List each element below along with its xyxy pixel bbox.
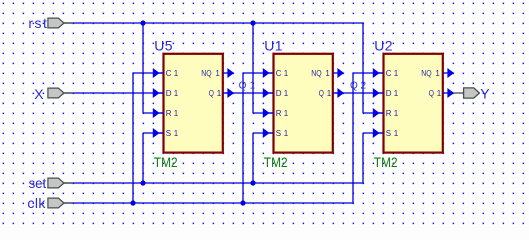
svg-text:C: C [386,69,392,78]
svg-text:U2: U2 [374,37,393,53]
wire Q1 net (U5.Q1 to U1.D1) [225,92,273,94]
svg-text:TM2: TM2 [264,154,288,170]
U1 pin D1 [269,92,274,94]
U1 pin R1 [269,112,274,114]
U1 pin NQ1 [333,72,339,74]
U2 pin R1 [379,112,384,114]
svg-text:1: 1 [174,89,179,98]
svg-text:Y: Y [480,85,490,101]
svg-text:1: 1 [327,89,332,98]
svg-text:2: 2 [361,81,367,92]
svg-text:Q: Q [350,81,358,92]
svg-text:R: R [386,109,392,118]
U2 pin C1 [379,72,384,74]
svg-text:Q: Q [429,89,434,98]
terminal Y output [453,92,464,94]
svg-text:1: 1 [174,129,179,138]
svg-text:set: set [29,175,47,191]
wire rst vertical to U2.R1 [362,22,364,113]
svg-text:R: R [276,109,282,118]
svg-text:1: 1 [394,109,399,118]
svg-text:Q: Q [319,89,324,98]
wire rst vertical to U5.R1 [142,22,144,113]
svg-text:NQ: NQ [201,69,211,78]
wire rst horizontal net [62,22,363,24]
svg-text:clk: clk [27,195,46,211]
terminal rst [64,22,73,24]
wire set vertical to U2.S1 [362,133,364,184]
wire set vertical to U5.S1 [142,133,144,184]
svg-text:U5: U5 [154,37,173,53]
flip-flop U2 body [384,54,443,153]
svg-text:1: 1 [284,129,289,138]
svg-text:C: C [166,69,172,78]
svg-text:D: D [386,89,392,98]
U5 pin C1 [159,72,164,74]
svg-text:1: 1 [284,109,289,118]
svg-text:TM2: TM2 [374,154,398,170]
svg-text:S: S [166,129,171,138]
svg-text:NQ: NQ [421,69,431,78]
svg-text:1: 1 [284,69,289,78]
svg-text:U1: U1 [264,37,283,53]
wire X input horizontal [62,92,163,94]
wire rst vertical to U1.R1 [252,22,254,113]
svg-text:S: S [276,129,281,138]
U2 pin D1 [379,92,384,94]
wire set horizontal net [62,182,363,184]
wire set vertical to U1.S1 [252,133,254,184]
terminal clk [64,202,73,204]
flip-flop U5 body [164,54,223,153]
flip-flop U1 body [274,54,333,153]
U5 pin S1 [159,132,164,134]
U5 pin Q1 [223,92,229,94]
U2 pin S1 [379,132,384,134]
terminal set [64,182,73,184]
svg-text:X: X [34,86,44,102]
svg-text:C: C [276,69,282,78]
U2 pin Q1 [443,92,449,94]
svg-text:1: 1 [394,89,399,98]
U1 pin Q1 [333,92,339,94]
svg-text:D: D [166,89,172,98]
svg-text:1: 1 [217,89,222,98]
svg-text:1: 1 [394,69,399,78]
junction at (243,203) [240,200,245,205]
svg-text:TM2: TM2 [154,154,178,170]
junction at (143,23) [140,20,145,25]
svg-text:1: 1 [174,69,179,78]
svg-text:R: R [166,109,172,118]
svg-text:D: D [276,89,282,98]
junction at (253,23) [250,20,255,25]
junction at (133,203) [130,200,135,205]
U5 pin R1 [159,112,164,114]
wire clk vertical to U1.C1 [242,72,244,203]
svg-text:1: 1 [394,129,399,138]
svg-text:1: 1 [435,69,440,78]
svg-text:1: 1 [325,69,330,78]
U1 pin C1 [269,72,274,74]
wire clk vertical to U2.C1 [352,72,354,203]
svg-text:1: 1 [174,109,179,118]
U2 pin NQ1 [443,72,449,74]
wire Q2 net (U1.Q1 to U2.D1) [335,92,383,94]
svg-text:1: 1 [284,89,289,98]
svg-text:1: 1 [250,81,256,92]
junction at (253,183) [250,180,255,185]
svg-text:1: 1 [437,89,442,98]
U5 pin NQ1 [223,72,229,74]
svg-text:NQ: NQ [311,69,321,78]
svg-text:Q: Q [239,81,247,92]
svg-text:Q: Q [209,89,214,98]
wire clk vertical to U5.C1 [132,72,134,203]
svg-text:rst: rst [28,15,47,31]
U5 pin D1 [159,92,164,94]
svg-text:1: 1 [215,69,220,78]
wire clk horizontal net [62,202,353,204]
svg-text:S: S [386,129,391,138]
U1 pin S1 [269,132,274,134]
terminal X [64,92,73,94]
junction at (143,183) [140,180,145,185]
